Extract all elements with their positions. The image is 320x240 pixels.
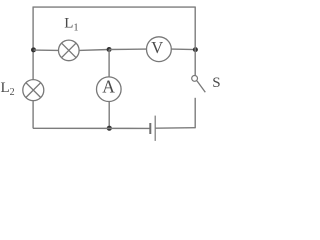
svg-text:S: S xyxy=(212,75,220,91)
wire top xyxy=(33,6,195,8)
switch S blade xyxy=(197,81,205,93)
wire bottom right xyxy=(155,127,195,130)
svg-text:L2: L2 xyxy=(1,80,15,98)
wire middle horizontal seg4 xyxy=(171,48,195,51)
voltmeter V xyxy=(147,37,172,62)
ammeter A xyxy=(97,76,122,101)
wire left upper xyxy=(32,7,34,80)
wire middle horizontal seg3 xyxy=(109,48,147,50)
wire middle horizontal seg1 xyxy=(34,49,59,51)
node junction right (V wire taps right wire) xyxy=(193,47,198,52)
wire bottom left xyxy=(33,127,150,129)
node junction mid (ammeter branch) xyxy=(107,47,112,52)
battery negative terminal (short thick) xyxy=(149,123,151,134)
wire left lower xyxy=(32,101,34,129)
node junction bottom (ammeter branch meets bottom wire) xyxy=(107,126,112,131)
lamp L2 xyxy=(23,80,44,101)
wire middle horizontal seg2 xyxy=(79,49,109,52)
lamp L1 xyxy=(59,40,80,61)
wire middle vertical lower (ammeter to bottom wire) xyxy=(108,102,110,129)
wire middle vertical upper (junction to ammeter) xyxy=(108,50,110,77)
svg-text:L1: L1 xyxy=(64,15,78,33)
svg-text:V: V xyxy=(151,38,163,57)
wire right lower xyxy=(194,98,196,128)
svg-text:A: A xyxy=(102,76,115,96)
switch S pivot xyxy=(192,76,198,82)
wire right upper xyxy=(194,7,196,76)
battery positive terminal (long thin) xyxy=(154,116,156,141)
node junction left (middle wire taps left wire) xyxy=(31,47,36,52)
